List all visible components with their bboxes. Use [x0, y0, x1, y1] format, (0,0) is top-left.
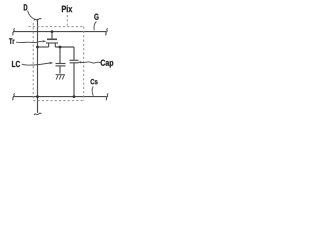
gate line G (horizontal bus) — [13, 31, 106, 33]
wire: branch down to storage capacitor — [73, 47, 75, 60]
Cs line left break squiggle — [12, 93, 15, 100]
capacitor Cap top plate — [70, 59, 79, 61]
Pix label leader (dashed) — [66, 15, 68, 26]
leader from LC with arrow — [22, 63, 50, 65]
common electrode hatch under LC (777 marks) — [56, 75, 65, 80]
label LC — [12, 61, 20, 67]
leader lines — [16, 11, 100, 96]
capacitor Cap bottom plate — [70, 62, 79, 64]
leader from Cap with arrow (wavy) — [81, 62, 101, 63]
wire: LC bottom stub — [59, 66, 61, 74]
Pix box bottom edge — [33, 100, 84, 102]
transistor Tr : channel bar — [46, 42, 58, 44]
junction dot: gate tap on gate line — [51, 30, 54, 33]
arrowhead of Tr leader — [43, 40, 47, 42]
Pix box right edge — [83, 27, 85, 101]
label G — [94, 14, 98, 20]
wire: data line to drain — [38, 46, 49, 48]
arrowhead of LC leader — [50, 62, 54, 64]
transistor Tr : right (source) leg — [54, 43, 56, 47]
label Cap — [101, 60, 114, 68]
junction dot: drain wire on data line — [36, 46, 39, 49]
transistor Tr : left (drain) leg — [48, 43, 50, 47]
wire: Cap bottom to Cs line — [73, 63, 75, 97]
data line bottom break squiggle — [34, 113, 41, 115]
label Pix — [62, 5, 72, 12]
junction dot: data line on Cs line — [36, 95, 39, 98]
label Cs — [91, 79, 98, 84]
transistor Tr : gate bar — [47, 38, 57, 40]
capacitor LC top plate — [56, 63, 66, 65]
Pix box left edge — [32, 23, 34, 101]
Cs line (horizontal bus, bottom) — [13, 96, 107, 98]
wire: branch down to LC capacitor — [59, 47, 61, 63]
dashed pixel boundary box Pix — [29, 15, 85, 101]
arrowhead of Cap leader — [77, 61, 81, 63]
leader from Tr with arrow — [16, 41, 42, 42]
junction dot: Cap wire on Cs line — [73, 95, 76, 98]
leader from Cs to Cs line — [92, 87, 93, 96]
leader from G to gate line — [94, 22, 96, 31]
background — [0, 0, 118, 120]
leader from D to data line — [28, 11, 36, 20]
capacitor LC bottom plate — [56, 65, 66, 67]
gate line left break squiggle — [12, 28, 15, 35]
label D — [24, 4, 28, 10]
transistor Tr : gate tap from gate line — [51, 32, 53, 39]
data line D (vertical bus) — [37, 19, 39, 113]
Cs line right break squiggle — [106, 93, 109, 100]
junction dot: LC branch node — [59, 46, 62, 49]
Pix box top edge — [29, 26, 85, 28]
label Tr — [9, 38, 14, 44]
gate line right break squiggle — [105, 28, 108, 35]
wire: source to capacitor branch — [55, 46, 74, 48]
data line top break squiggle — [34, 18, 41, 20]
